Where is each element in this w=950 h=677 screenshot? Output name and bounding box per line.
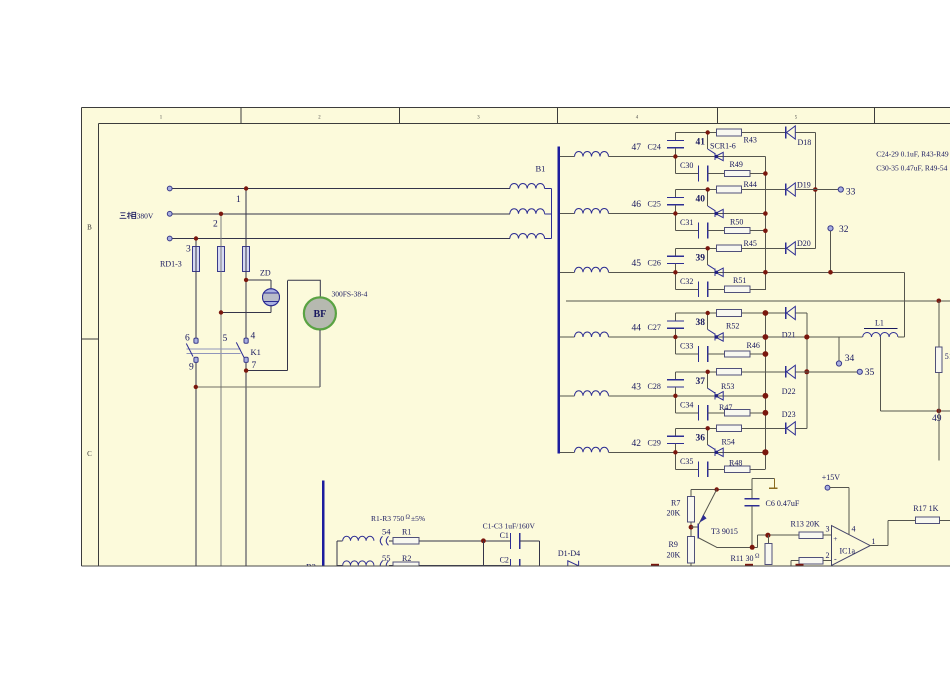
svg-text:D21: D21 [782, 331, 796, 340]
svg-text:C30-35 0.47uF, R49-54: C30-35 0.47uF, R49-54 [876, 164, 947, 173]
svg-text:46: 46 [632, 200, 642, 210]
svg-text:B: B [87, 224, 92, 232]
svg-text:380V: 380V [137, 212, 154, 221]
svg-text:39: 39 [696, 253, 706, 263]
svg-text:R44: R44 [744, 180, 757, 189]
svg-text:R13 20K: R13 20K [791, 520, 820, 529]
svg-text:2: 2 [826, 551, 830, 560]
svg-text:6: 6 [185, 334, 190, 344]
svg-text:49: 49 [932, 414, 942, 424]
svg-text:BF: BF [314, 309, 327, 320]
svg-text:3: 3 [826, 524, 830, 533]
svg-text:4: 4 [251, 332, 256, 342]
svg-text:C28: C28 [648, 382, 661, 391]
svg-text:R48: R48 [729, 458, 742, 467]
svg-text:L1: L1 [875, 318, 884, 327]
svg-text:R43: R43 [744, 136, 757, 145]
svg-text:+15V: +15V [822, 473, 841, 482]
svg-text:Ω: Ω [406, 515, 411, 521]
svg-text:C32: C32 [680, 277, 693, 286]
svg-text:D20: D20 [797, 239, 811, 248]
svg-text:1: 1 [236, 195, 241, 205]
svg-text:R47: R47 [719, 403, 732, 412]
svg-text:3: 3 [186, 245, 191, 255]
svg-text:C27: C27 [648, 323, 661, 332]
svg-text:B1: B1 [536, 164, 546, 174]
svg-text:20K: 20K [667, 551, 681, 560]
svg-text:ZD: ZD [260, 269, 271, 278]
svg-text:41: 41 [696, 138, 706, 148]
svg-text:C33: C33 [680, 342, 693, 351]
svg-text:C26: C26 [648, 258, 661, 267]
svg-text:C: C [87, 450, 92, 458]
svg-text:R7: R7 [671, 499, 680, 508]
svg-text:R49: R49 [730, 160, 743, 169]
svg-text:C30: C30 [680, 161, 693, 170]
svg-text:37: 37 [696, 377, 706, 387]
svg-text:R51: R51 [733, 276, 746, 285]
svg-text:2: 2 [213, 220, 218, 230]
svg-text:D1-D4: D1-D4 [558, 549, 580, 558]
svg-text:36: 36 [696, 433, 706, 443]
svg-text:34: 34 [845, 354, 855, 364]
svg-text:300FS-38-4: 300FS-38-4 [332, 290, 368, 299]
svg-text:43: 43 [632, 382, 642, 392]
svg-text:7: 7 [252, 361, 257, 371]
svg-text:±5%: ±5% [411, 514, 425, 523]
svg-text:C1: C1 [500, 531, 509, 540]
svg-text:32: 32 [839, 225, 849, 235]
svg-text:IC1a: IC1a [840, 547, 856, 556]
svg-text:C35: C35 [680, 457, 693, 466]
svg-text:C2: C2 [500, 555, 509, 564]
svg-text:51: 51 [945, 352, 950, 361]
svg-text:C1-C3 1uF/160V: C1-C3 1uF/160V [483, 521, 536, 530]
svg-text:D18: D18 [798, 138, 812, 147]
svg-text:20K: 20K [667, 509, 681, 518]
svg-text:54: 54 [382, 527, 391, 537]
svg-text:45: 45 [632, 259, 642, 269]
svg-text:T3 9015: T3 9015 [711, 527, 738, 536]
svg-text:R17 1K: R17 1K [913, 504, 938, 513]
svg-text:SCR1-6: SCR1-6 [710, 142, 736, 151]
svg-text:R1-R3 750: R1-R3 750 [371, 514, 404, 523]
svg-text:4: 4 [852, 525, 856, 534]
svg-text:C6 0.47uF: C6 0.47uF [766, 499, 800, 508]
svg-text:Ω: Ω [755, 554, 760, 560]
svg-text:K1: K1 [251, 347, 261, 357]
svg-text:R50: R50 [730, 217, 743, 226]
svg-text:C29: C29 [648, 438, 661, 447]
svg-text:R52: R52 [726, 322, 739, 331]
svg-text:R45: R45 [744, 239, 757, 248]
svg-text:D19: D19 [797, 180, 811, 189]
svg-text:47: 47 [632, 143, 642, 153]
svg-text:+: + [833, 534, 837, 543]
svg-text:1: 1 [872, 537, 876, 546]
svg-text:5: 5 [223, 334, 228, 344]
svg-text:55: 55 [382, 553, 391, 563]
svg-text:C31: C31 [680, 218, 693, 227]
svg-text:R9: R9 [669, 540, 678, 549]
svg-text:R54: R54 [722, 438, 735, 447]
svg-text:38: 38 [696, 318, 706, 328]
svg-text:D23: D23 [782, 410, 796, 419]
svg-text:R53: R53 [721, 382, 734, 391]
svg-text:40: 40 [696, 195, 706, 205]
svg-text:35: 35 [865, 368, 875, 378]
svg-text:33: 33 [846, 187, 856, 197]
svg-text:R11 30: R11 30 [731, 554, 754, 563]
svg-text:C34: C34 [680, 400, 693, 409]
svg-text:R2: R2 [402, 554, 411, 563]
svg-text:RD1-3: RD1-3 [160, 260, 182, 269]
svg-text:R1: R1 [402, 528, 411, 537]
svg-text:R46: R46 [747, 341, 760, 350]
svg-text:C25: C25 [648, 200, 661, 209]
svg-text:D22: D22 [782, 387, 796, 396]
svg-text:C24: C24 [648, 143, 661, 152]
svg-text:42: 42 [632, 439, 642, 449]
svg-text:C24-29 0.1uF, R43-R49: C24-29 0.1uF, R43-R49 [876, 150, 949, 159]
svg-text:-: - [834, 555, 837, 564]
svg-text:44: 44 [632, 324, 642, 334]
svg-text:9: 9 [189, 363, 194, 373]
